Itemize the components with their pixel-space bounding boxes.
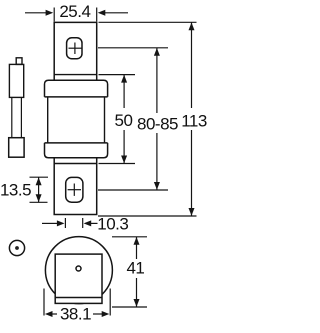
side view: top tab bbox=[16, 58, 22, 65]
svg-text:80-85: 80-85 bbox=[137, 115, 178, 134]
svg-text:10.3: 10.3 bbox=[97, 215, 128, 234]
main view: bottom slotted hole bbox=[66, 177, 83, 202]
main view: top blade tag bbox=[54, 22, 96, 80]
dimension 80-85 bbox=[154, 48, 160, 190]
main view: barrel bbox=[48, 97, 105, 143]
main view: bottom blade tag bbox=[54, 158, 96, 215]
svg-text:113: 113 bbox=[181, 112, 207, 131]
extension line at blade top (113) bbox=[99, 21, 197, 23]
dimension 38.1 bbox=[44, 289, 110, 318]
svg-text:41: 41 bbox=[126, 259, 144, 278]
dimension 41 bbox=[112, 237, 147, 307]
extension line at top boss (50) bbox=[99, 74, 136, 76]
dimension 13.5 bbox=[30, 177, 49, 202]
extension line at top hole centre (80-85) bbox=[98, 47, 168, 49]
extension line at bottom hole centre (80-85) bbox=[98, 189, 168, 191]
svg-text:50: 50 bbox=[115, 111, 133, 130]
main view: bottom hole crosshair bbox=[68, 184, 81, 196]
bottom view: small centre circle bbox=[76, 266, 81, 271]
main view: bottom boss line bbox=[54, 163, 96, 165]
bottom view: blade square bbox=[55, 254, 102, 303]
dimension 25.4 bbox=[25, 8, 128, 22]
datum symbol (circle with dot) bbox=[9, 240, 24, 255]
main view: top slotted hole bbox=[67, 38, 82, 59]
main view: bottom end cap bbox=[45, 143, 108, 158]
side view: neck lines bbox=[12, 97, 22, 137]
dimension 50 bbox=[121, 75, 127, 164]
svg-text:25.4: 25.4 bbox=[59, 2, 90, 21]
main view: top boss line bbox=[54, 74, 96, 76]
svg-text:13.5: 13.5 bbox=[0, 181, 31, 200]
side view: bottom rectangle bbox=[9, 138, 24, 158]
bottom view: barrel circle bbox=[45, 237, 112, 304]
main view: top hole crosshair bbox=[69, 43, 82, 55]
extension line at blade bottom (113) bbox=[98, 215, 197, 217]
side view: upper rectangle (blade profile) bbox=[9, 64, 23, 97]
svg-text:38.1: 38.1 bbox=[60, 304, 91, 323]
main view: top end cap bbox=[45, 80, 108, 97]
extension line at bottom boss (50) bbox=[99, 163, 136, 165]
dimension 113 bbox=[189, 23, 195, 216]
dimension 10.3 bbox=[42, 218, 98, 228]
